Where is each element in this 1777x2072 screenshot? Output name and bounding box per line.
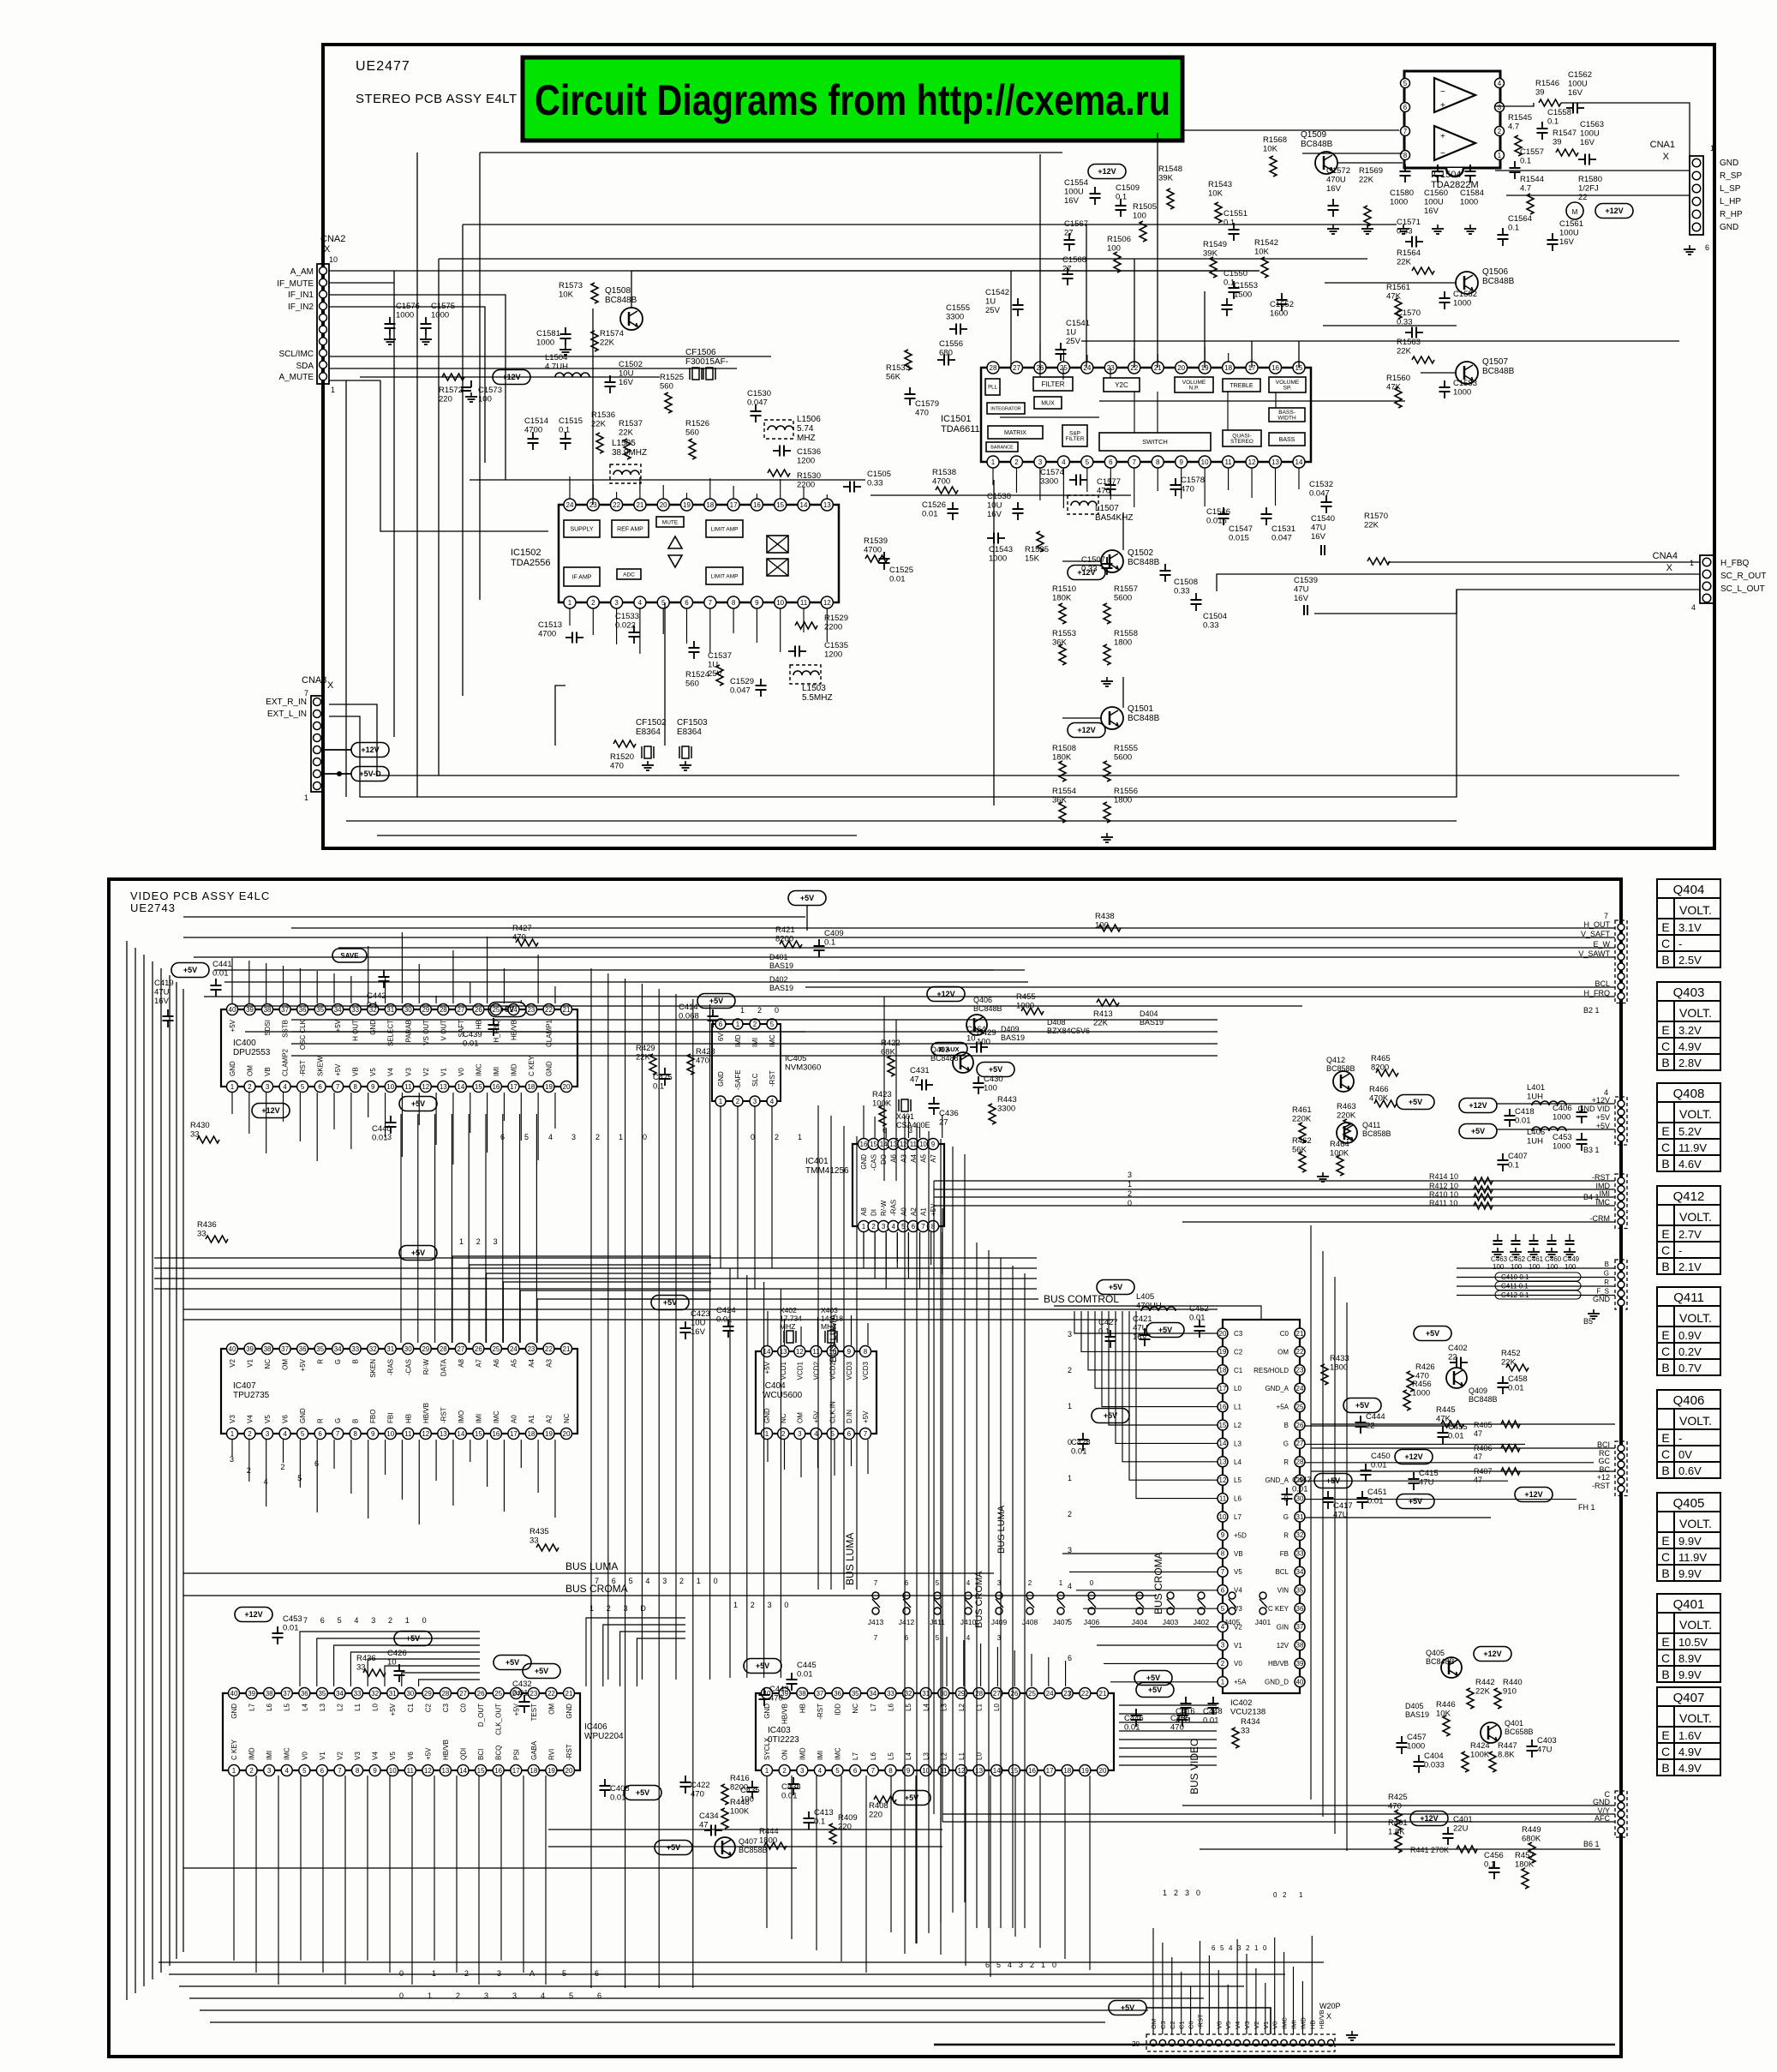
pin 3 IC1504 xyxy=(1495,103,1505,112)
op-amp IC1504 TDA2822M xyxy=(1404,71,1500,168)
pin 2 IC406 xyxy=(246,1765,257,1776)
svg-text:C3: C3 xyxy=(442,1703,450,1712)
pin 30 IC400 xyxy=(403,1004,414,1015)
svg-text:C1562: C1562 xyxy=(1568,70,1592,80)
svg-text:MUTE: MUTE xyxy=(662,519,679,525)
svg-text:C403: C403 xyxy=(1537,1736,1557,1746)
supply +5V oval R421 xyxy=(788,891,826,906)
svg-text:2: 2 xyxy=(1221,1660,1225,1668)
pin 32 IC400 xyxy=(368,1004,379,1015)
svg-text:X: X xyxy=(1663,152,1670,162)
svg-text:1: 1 xyxy=(740,1006,745,1015)
voltage table Q411 xyxy=(1657,1287,1720,1375)
ground CF1502 xyxy=(647,761,649,765)
svg-text:21: 21 xyxy=(1296,1330,1304,1338)
svg-text:6: 6 xyxy=(318,1083,322,1091)
svg-text:+5V: +5V xyxy=(1409,1497,1422,1506)
svg-text:+5V: +5V xyxy=(1355,1401,1369,1410)
pin 4 IC403 xyxy=(814,1765,825,1776)
svg-text:37: 37 xyxy=(1296,1623,1304,1631)
svg-text:R1547: R1547 xyxy=(1553,129,1577,138)
svg-text:1: 1 xyxy=(405,1616,410,1625)
svg-text:-CAS: -CAS xyxy=(871,1154,878,1171)
svg-text:5: 5 xyxy=(936,1579,940,1587)
svg-text:Q407: Q407 xyxy=(1673,1691,1705,1705)
svg-text:0: 0 xyxy=(775,1006,779,1015)
svg-text:16V: 16V xyxy=(1133,1332,1148,1342)
svg-text:2: 2 xyxy=(248,1083,252,1091)
svg-text:Q411: Q411 xyxy=(1362,1121,1380,1129)
svg-text:C1532: C1532 xyxy=(1309,480,1333,489)
svg-text:VOLT.: VOLT. xyxy=(1679,1006,1712,1020)
svg-text:5: 5 xyxy=(301,1083,305,1091)
svg-text:R436: R436 xyxy=(197,1220,217,1230)
svg-text:10: 10 xyxy=(329,255,338,264)
svg-text:L5: L5 xyxy=(887,1752,894,1760)
svg-text:SC_L_OUT: SC_L_OUT xyxy=(1720,584,1765,594)
svg-text:B: B xyxy=(352,1419,360,1423)
svg-text:3: 3 xyxy=(800,1767,805,1775)
svg-text:L6: L6 xyxy=(870,1752,877,1760)
svg-text:12: 12 xyxy=(424,1767,432,1775)
svg-text:35: 35 xyxy=(852,1690,859,1698)
pin 5 IC404 xyxy=(827,1428,838,1440)
block INTEGRATOR IC1501 xyxy=(987,403,1025,414)
svg-text:0.01: 0.01 xyxy=(512,1689,529,1698)
wire bottom left vert xyxy=(345,380,347,797)
pin 24 IC1502 xyxy=(564,499,576,511)
wire row y560 left xyxy=(470,479,865,481)
wire H_FBQ xyxy=(1388,561,1700,563)
svg-text:B AUX: B AUX xyxy=(939,1045,959,1053)
svg-text:SELECT: SELECT xyxy=(387,1020,395,1046)
svg-text:IMI: IMI xyxy=(751,1038,759,1047)
svg-text:100: 100 xyxy=(1511,1263,1523,1271)
svg-text:V4: V4 xyxy=(387,1068,395,1076)
svg-text:2: 2 xyxy=(607,1604,611,1613)
pin 10 IC401 xyxy=(918,1139,929,1150)
svg-text:VB: VB xyxy=(352,1067,360,1076)
svg-text:28: 28 xyxy=(440,1006,447,1014)
svg-text:8: 8 xyxy=(732,599,736,607)
wire speaker line 1 xyxy=(1506,195,1690,196)
svg-text:OM: OM xyxy=(796,1412,804,1423)
wire croma bracket above IC406 right xyxy=(586,1618,685,1686)
supply +12V oval near L1504 xyxy=(493,370,530,385)
pin 13 IC1501 xyxy=(1270,456,1282,468)
wire +5V to W20P rail xyxy=(1146,2008,1271,2034)
wire bottom long bus xyxy=(159,1961,1324,1963)
pin 11 IC401 xyxy=(907,1139,918,1150)
svg-text:1: 1 xyxy=(1163,1889,1167,1897)
pin 27 IC400 xyxy=(455,1004,466,1015)
wire right long vertical 2 xyxy=(942,1208,943,1822)
pin 14 IC1502 xyxy=(798,499,810,511)
svg-text:4: 4 xyxy=(966,1634,971,1642)
svg-text:R465: R465 xyxy=(1371,1054,1391,1063)
svg-text:27: 27 xyxy=(993,1690,1001,1698)
svg-text:16: 16 xyxy=(494,1767,502,1775)
voltage table Q406 xyxy=(1657,1390,1720,1478)
svg-text:C463: C463 xyxy=(1491,1255,1508,1263)
wire mid vertical bus B xyxy=(729,1268,731,1678)
svg-text:4: 4 xyxy=(1691,603,1696,612)
svg-text:C417: C417 xyxy=(1333,1501,1353,1511)
svg-text:-RST: -RST xyxy=(299,1060,307,1076)
svg-text:FBO: FBO xyxy=(369,1410,377,1423)
svg-text:R1520: R1520 xyxy=(610,752,634,762)
svg-text:2: 2 xyxy=(464,1969,469,1978)
svg-text:R1545: R1545 xyxy=(1508,113,1532,123)
pin 20 IC406 xyxy=(564,1765,575,1776)
svg-text:C1583: C1583 xyxy=(1453,379,1477,388)
svg-text:V0: V0 xyxy=(301,1752,308,1760)
svg-text:15: 15 xyxy=(1010,1767,1018,1775)
svg-text:+5V: +5V xyxy=(389,1703,397,1716)
svg-text:1: 1 xyxy=(428,1991,432,2000)
svg-text:C415: C415 xyxy=(1419,1469,1439,1478)
svg-text:R/-W: R/-W xyxy=(880,1200,888,1216)
svg-text:VOLT.: VOLT. xyxy=(1679,1618,1712,1632)
svg-text:0.01: 0.01 xyxy=(1448,1432,1464,1441)
wire +12V to B3 xyxy=(1497,1103,1615,1105)
pin 3 IC1502 xyxy=(611,596,623,608)
svg-text:C1580: C1580 xyxy=(1390,189,1414,198)
wire ic404 risers xyxy=(767,1311,769,1345)
svg-text:IC404: IC404 xyxy=(763,1381,786,1391)
svg-text:39K: 39K xyxy=(1203,249,1218,259)
svg-text:11: 11 xyxy=(1224,458,1232,466)
pin 26 IC402 B xyxy=(1295,1420,1305,1430)
svg-text:7: 7 xyxy=(1403,128,1408,135)
pin 2 IC1504 xyxy=(1495,127,1505,136)
pin 22 IC402 OM xyxy=(1295,1346,1305,1356)
svg-text:11: 11 xyxy=(404,1083,412,1091)
block VOLUME SP. IC1501 xyxy=(1269,377,1306,392)
svg-text:C1547: C1547 xyxy=(1229,524,1253,534)
pin 13 IC401 xyxy=(888,1139,899,1150)
wire pins IC1502 top drop xyxy=(569,476,571,499)
svg-text:29: 29 xyxy=(422,1006,429,1014)
svg-text:DI: DI xyxy=(871,1209,878,1216)
wire IC406 top bracket xyxy=(300,1632,480,1686)
svg-text:Q405: Q405 xyxy=(1426,1649,1445,1657)
pin 9 IC407 xyxy=(368,1428,379,1440)
pin 29 IC400 xyxy=(420,1004,431,1015)
svg-text:1000: 1000 xyxy=(536,338,554,348)
svg-text:C445: C445 xyxy=(797,1661,817,1670)
svg-text:6: 6 xyxy=(985,1961,990,1969)
svg-text:R1555: R1555 xyxy=(1114,744,1138,753)
mixer X1 IC1502 xyxy=(767,536,788,553)
pin 17 IC1501 xyxy=(1246,362,1258,374)
svg-text:100K: 100K xyxy=(1470,1751,1490,1760)
pin 8 IC401 xyxy=(928,1221,939,1232)
svg-text:32: 32 xyxy=(1296,1531,1304,1539)
svg-text:7: 7 xyxy=(1221,1568,1225,1576)
supply +5V oval C423 xyxy=(651,1296,689,1310)
svg-text:12: 12 xyxy=(796,1348,804,1356)
svg-text:12: 12 xyxy=(823,599,831,607)
pin 14 IC1501 xyxy=(1293,456,1305,468)
pin 37 IC400 xyxy=(279,1004,290,1015)
svg-text:-RAS: -RAS xyxy=(387,1359,395,1375)
svg-text:Q408: Q408 xyxy=(1673,1087,1705,1101)
svg-text:22: 22 xyxy=(545,1345,553,1353)
svg-text:4: 4 xyxy=(283,1430,287,1438)
svg-text:100U: 100U xyxy=(1559,229,1579,238)
svg-text:C1578: C1578 xyxy=(1181,476,1205,485)
svg-text:16V: 16V xyxy=(1580,138,1595,147)
IC IC403 0TI2223 body xyxy=(756,1693,1114,1770)
svg-text:100: 100 xyxy=(1547,1263,1559,1271)
svg-text:47U: 47U xyxy=(1537,1746,1553,1755)
wire IC400-IC407 vertical bus xyxy=(400,1114,402,1343)
svg-text:V5: V5 xyxy=(369,1068,377,1076)
block BARANCE IC1501 xyxy=(986,442,1018,452)
svg-text:0.33: 0.33 xyxy=(1174,587,1190,596)
svg-text:HB/VB: HB/VB xyxy=(781,1704,789,1724)
supply +12V oval FH xyxy=(1515,1488,1553,1502)
svg-text:V6: V6 xyxy=(407,1752,415,1760)
svg-text:0.1: 0.1 xyxy=(824,938,835,948)
wire IC1501 pin26 up xyxy=(1039,154,1041,368)
svg-text:C1555: C1555 xyxy=(946,303,970,313)
svg-text:9: 9 xyxy=(371,1083,375,1091)
supply +12V oval Q1502 xyxy=(1068,566,1105,580)
pin 31 IC400 xyxy=(385,1004,396,1015)
pin 1 IC402 +5A xyxy=(1218,1677,1228,1687)
wire heavy bottom rail xyxy=(934,2044,1615,2046)
svg-text:R_SP: R_SP xyxy=(1720,171,1742,181)
pin 40 IC406 xyxy=(229,1688,240,1699)
supply +12V oval CNA3 xyxy=(351,743,389,758)
svg-text:37: 37 xyxy=(816,1690,823,1698)
pin 6 IC1504 xyxy=(1401,103,1410,112)
svg-text:X: X xyxy=(324,244,331,255)
svg-text:BC658B: BC658B xyxy=(1505,1728,1534,1736)
svg-text:8200: 8200 xyxy=(730,1783,748,1793)
svg-text:2: 2 xyxy=(595,1133,600,1141)
svg-text:1: 1 xyxy=(619,1133,623,1141)
pin 38 IC407 xyxy=(262,1344,273,1355)
pin 25 IC406 xyxy=(493,1688,504,1699)
svg-text:R1529: R1529 xyxy=(824,614,848,623)
svg-text:16V: 16V xyxy=(1559,237,1575,247)
svg-text:470: 470 xyxy=(610,762,624,771)
pin 36 IC403 xyxy=(832,1688,843,1699)
svg-text:10K: 10K xyxy=(1254,248,1270,257)
svg-text:470: 470 xyxy=(1097,487,1110,496)
pin 27 IC402 G xyxy=(1295,1438,1305,1448)
wire fh2 xyxy=(1311,1447,1615,1449)
pin 1 IC405 xyxy=(733,1019,743,1029)
transistor Q1506 BC848B xyxy=(1456,272,1478,294)
svg-text:L_HP: L_HP xyxy=(1720,197,1741,207)
svg-text:V2: V2 xyxy=(422,1068,430,1076)
svg-text:15: 15 xyxy=(475,1083,482,1091)
svg-text:7: 7 xyxy=(871,1767,876,1775)
svg-text:VOLT.: VOLT. xyxy=(1679,1107,1712,1121)
connector CNA4 xyxy=(1700,555,1714,603)
wire Q1508 collector xyxy=(631,271,1259,308)
svg-text:A4: A4 xyxy=(528,1358,535,1367)
pin 4 IC400 xyxy=(279,1081,290,1093)
svg-text:35: 35 xyxy=(1296,1586,1304,1594)
svg-text:D404: D404 xyxy=(1140,1009,1158,1018)
supply +12V oval top xyxy=(1088,165,1126,179)
svg-text:R449: R449 xyxy=(1522,1825,1541,1835)
svg-text:IF AMP: IF AMP xyxy=(572,574,592,580)
pin 8 IC404 xyxy=(860,1346,871,1357)
pin 7 IC401 xyxy=(918,1221,929,1232)
svg-text:12: 12 xyxy=(1248,458,1256,466)
svg-text:MHZ: MHZ xyxy=(780,1322,795,1331)
svg-text:C KEY: C KEY xyxy=(528,1055,535,1076)
pin 15 IC1501 xyxy=(1293,362,1305,374)
supply +12V oval R401 xyxy=(1410,1812,1448,1826)
svg-text:3: 3 xyxy=(512,1991,517,2000)
svg-text:4: 4 xyxy=(638,599,643,607)
pin 3 IC1501 xyxy=(1034,456,1046,468)
svg-text:+: + xyxy=(1440,132,1445,141)
pin 12 IC1502 xyxy=(821,596,833,608)
pin 23 IC400 xyxy=(525,1004,536,1015)
svg-text:A5: A5 xyxy=(510,1358,518,1367)
pin 8 IC407 xyxy=(350,1428,361,1440)
svg-text:20: 20 xyxy=(1219,1330,1227,1338)
pin 1 IC406 xyxy=(229,1765,240,1776)
svg-text:C1: C1 xyxy=(1234,1367,1243,1374)
pin 15 IC1502 xyxy=(775,499,787,511)
pin 35 IC402 VIN xyxy=(1295,1585,1305,1596)
svg-text:A8: A8 xyxy=(458,1358,465,1367)
svg-text:R455: R455 xyxy=(1016,992,1036,1002)
svg-text:6: 6 xyxy=(1403,104,1408,111)
pin 24 IC406 xyxy=(511,1688,522,1699)
svg-text:3: 3 xyxy=(662,1577,667,1585)
pin 23 IC403 xyxy=(1062,1688,1073,1699)
svg-text:C: C xyxy=(1661,1039,1670,1053)
svg-text:R1526: R1526 xyxy=(685,419,709,428)
wire B G R F_S xyxy=(1457,1267,1615,1269)
pin 32 IC407 xyxy=(368,1344,379,1355)
pin 40 IC407 xyxy=(227,1344,238,1355)
svg-text:8: 8 xyxy=(353,1083,357,1091)
svg-text:C: C xyxy=(1661,1141,1670,1154)
wire IC1504 pin out right xyxy=(1495,103,1534,106)
svg-text:L1506: L1506 xyxy=(797,415,821,424)
svg-text:C457: C457 xyxy=(1407,1733,1427,1742)
svg-text:19: 19 xyxy=(683,501,691,509)
svg-text:0.01: 0.01 xyxy=(283,1624,299,1633)
svg-text:CF1503: CF1503 xyxy=(677,718,708,728)
pin 5 IC1504 xyxy=(1401,79,1410,88)
svg-text:E: E xyxy=(1661,1635,1669,1649)
svg-text:2: 2 xyxy=(1068,1510,1072,1518)
wire ic402 top link xyxy=(1054,1306,1261,1320)
svg-text:40: 40 xyxy=(230,1690,238,1698)
svg-text:BCQ: BCQ xyxy=(495,1746,503,1760)
svg-text:C0: C0 xyxy=(1280,1330,1289,1338)
svg-text:1: 1 xyxy=(1299,1891,1303,1899)
svg-text:C KEY: C KEY xyxy=(230,1739,238,1760)
svg-text:6: 6 xyxy=(314,1459,319,1468)
svg-text:FILTER: FILTER xyxy=(1042,380,1065,388)
svg-text:32: 32 xyxy=(369,1345,377,1353)
pin 2 IC404 xyxy=(778,1428,789,1440)
svg-text:D405: D405 xyxy=(1405,1702,1424,1710)
svg-text:10: 10 xyxy=(389,1767,397,1775)
svg-text:+5V: +5V xyxy=(1596,1113,1610,1122)
cap row C410 C411 C412 xyxy=(1495,1273,1581,1281)
svg-text:11: 11 xyxy=(910,1141,918,1148)
svg-text:SKEW: SKEW xyxy=(317,1056,325,1076)
pin 15 IC406 xyxy=(476,1765,487,1776)
svg-text:R413: R413 xyxy=(1093,1009,1113,1019)
svg-text:8: 8 xyxy=(1221,1550,1225,1558)
svg-text:B: B xyxy=(1284,1422,1289,1429)
svg-text:+5V: +5V xyxy=(1426,1329,1439,1338)
pin 21 IC403 xyxy=(1098,1688,1109,1699)
svg-text:19: 19 xyxy=(545,1430,553,1438)
svg-text:E: E xyxy=(1661,1023,1669,1037)
IC IC406 WPU2204 body xyxy=(223,1693,580,1770)
svg-text:B: B xyxy=(1661,1761,1669,1775)
block Y2C IC1501 xyxy=(1104,378,1140,392)
pin 4 IC1502 xyxy=(634,596,646,608)
svg-text:TMM41256: TMM41256 xyxy=(805,1166,849,1176)
transistor Q406 BC848B xyxy=(966,1015,987,1035)
svg-text:HB/VB: HB/VB xyxy=(510,1020,518,1040)
svg-text:2: 2 xyxy=(782,1767,787,1775)
pin 22 IC407 xyxy=(543,1344,554,1355)
transistor Q407 BC858B xyxy=(715,1837,735,1858)
svg-text:16: 16 xyxy=(753,501,761,509)
pin 39 IC406 xyxy=(246,1688,257,1699)
svg-text:Q401: Q401 xyxy=(1505,1719,1523,1728)
svg-text:10: 10 xyxy=(1201,458,1209,466)
wire -RST b xyxy=(934,1180,1615,1182)
svg-text:4: 4 xyxy=(1229,1944,1233,1952)
transistor Q1501 BC848B xyxy=(1101,707,1123,729)
svg-text:R411 10: R411 10 xyxy=(1429,1199,1457,1207)
wire IF_IN1 xyxy=(329,295,506,480)
svg-text:VCD1: VCD1 xyxy=(796,1361,804,1380)
svg-text:BASS: BASS xyxy=(1279,437,1295,443)
pin 15 IC400 xyxy=(473,1081,484,1093)
svg-text:6: 6 xyxy=(320,1767,325,1775)
supply +5V oval C432 xyxy=(523,1664,560,1679)
svg-text:35: 35 xyxy=(318,1690,326,1698)
amp triangle down IC1502 xyxy=(668,555,682,567)
svg-text:8: 8 xyxy=(1156,458,1160,466)
svg-text:C462: C462 xyxy=(1509,1255,1526,1263)
svg-text:R1573: R1573 xyxy=(559,281,583,290)
svg-text:R448: R448 xyxy=(730,1798,750,1807)
svg-text:7: 7 xyxy=(595,1577,599,1585)
pin 20 IC403 xyxy=(1098,1765,1109,1776)
svg-text:27: 27 xyxy=(1013,364,1020,372)
wire mid-left horizontals y2155 xyxy=(548,1846,942,1847)
svg-text:10: 10 xyxy=(386,1430,394,1438)
svg-text:+5V: +5V xyxy=(512,1703,520,1716)
svg-text:2: 2 xyxy=(388,1616,392,1625)
svg-text:1: 1 xyxy=(733,1601,738,1609)
ground CF1503 xyxy=(685,761,686,765)
svg-text:39: 39 xyxy=(248,1690,255,1698)
svg-text:8: 8 xyxy=(864,1348,868,1356)
